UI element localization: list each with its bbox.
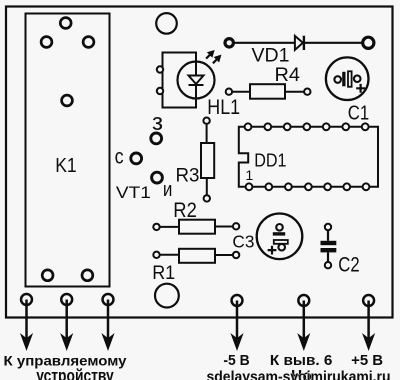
terminal pad L1 xyxy=(21,294,32,305)
capacitor C3 body xyxy=(257,214,303,260)
terminal pad R3 xyxy=(363,295,374,306)
resistor R4 body xyxy=(250,84,285,99)
DD1 pad t4 xyxy=(303,123,310,130)
capacitor C1 body xyxy=(326,57,369,100)
K1 pad 6 xyxy=(82,270,93,281)
C2 plate 2 xyxy=(321,248,337,252)
svg-text:DD1: DD1 xyxy=(254,150,286,171)
R2 pad left xyxy=(153,224,159,230)
K1 pad 4 xyxy=(62,95,73,106)
R1 pad right xyxy=(233,252,239,258)
HL1 LED diode symbol xyxy=(189,62,204,99)
R1 wire left xyxy=(160,254,179,256)
svg-text:и: и xyxy=(163,179,173,201)
arrow 6 xyxy=(363,301,374,350)
DD1 pad t7 xyxy=(362,123,369,130)
VD1 wire left xyxy=(234,42,295,44)
arrow 2 xyxy=(61,300,72,350)
svg-text:К выв. 6: К выв. 6 xyxy=(270,353,333,369)
R2 wire left xyxy=(160,226,179,228)
svg-text:R4: R4 xyxy=(275,64,301,86)
HL1 pad 1 xyxy=(157,66,163,72)
HL1 pad 2 xyxy=(157,88,163,94)
C2 stem top xyxy=(327,231,329,241)
svg-text:VT1: VT1 xyxy=(116,183,151,202)
arrow 1 xyxy=(21,300,32,350)
svg-text:sdelaysam-svoimirukami.ru: sdelaysam-svoimirukami.ru xyxy=(207,369,391,380)
DD1 pad t6 xyxy=(342,123,349,130)
DD1 pad b7 xyxy=(363,183,370,190)
HL1 light arrow 2 xyxy=(213,55,221,63)
VT1 pad s xyxy=(131,153,142,164)
DD1 pad b1 xyxy=(246,183,253,190)
DD1 pad b5 xyxy=(324,183,331,190)
VD1 pad right xyxy=(363,37,374,48)
diode VD1 pad left xyxy=(225,39,233,47)
svg-text:C3: C3 xyxy=(232,232,254,252)
R4 wire left xyxy=(233,91,250,93)
DD1 pad b6 xyxy=(343,183,350,190)
svg-text:R1: R1 xyxy=(152,263,175,284)
mounting hole top xyxy=(156,13,177,34)
svg-text:с: с xyxy=(115,144,124,168)
terminal pad R2 xyxy=(298,295,309,306)
C3 symbol xyxy=(268,224,288,255)
svg-text:R2: R2 xyxy=(173,198,197,222)
relay K1 body xyxy=(26,14,110,287)
resistor R3 body xyxy=(201,143,214,178)
K1 pad 3 xyxy=(83,37,94,48)
C1 symbol xyxy=(334,71,365,92)
arrow 4 xyxy=(232,301,243,350)
VT1 pad i xyxy=(152,172,163,183)
R3 pad bottom xyxy=(204,195,210,201)
DD1 pad t2 xyxy=(264,123,271,130)
terminal pad R1 xyxy=(232,295,243,306)
DD1 pad t3 xyxy=(284,123,291,130)
svg-text:1: 1 xyxy=(245,168,253,184)
VD1 wire right xyxy=(305,42,363,44)
R3 pad top xyxy=(203,118,209,124)
svg-text:HL1: HL1 xyxy=(207,95,240,119)
arrow 3 xyxy=(103,300,114,350)
LED HL1 body xyxy=(163,53,197,108)
svg-text:C2: C2 xyxy=(338,253,359,277)
R3 wire top xyxy=(206,125,208,143)
DD1 pad t5 xyxy=(323,123,330,130)
R4 pad right xyxy=(304,89,310,95)
R3 wire bottom xyxy=(206,178,208,195)
svg-text:+5 В: +5 В xyxy=(351,353,383,369)
terminal pad L2 xyxy=(61,294,72,305)
K1 pad 5 xyxy=(42,270,53,281)
resistor R1 body xyxy=(179,249,215,263)
R4 pad left xyxy=(226,89,232,95)
DD1 pad b2 xyxy=(265,183,272,190)
VT1 pad z xyxy=(151,133,162,144)
terminal pad L3 xyxy=(103,294,114,305)
K1 pad 1 xyxy=(60,18,71,29)
VD1 diode symbol xyxy=(295,36,304,50)
HL1 light arrow 1 xyxy=(206,51,214,59)
resistor R2 body xyxy=(179,220,215,234)
R4 wire right xyxy=(285,91,304,93)
R2 wire right xyxy=(215,226,233,228)
arrow 5 xyxy=(298,301,309,350)
svg-text:-5 В: -5 В xyxy=(223,353,249,369)
R1 pad left xyxy=(153,252,159,258)
mounting hole bottom xyxy=(155,284,179,308)
svg-text:C1: C1 xyxy=(348,101,369,124)
capacitor C2 pad top xyxy=(325,224,331,230)
svg-text:K1: K1 xyxy=(55,154,76,177)
svg-text:R3: R3 xyxy=(176,164,200,186)
DD1 pad b4 xyxy=(305,183,312,190)
C2 plate 1 xyxy=(321,241,337,245)
R1 wire right xyxy=(215,254,233,256)
IC DD1 body xyxy=(239,127,378,187)
R2 pad right xyxy=(233,223,239,229)
K1 pad 2 xyxy=(41,37,52,48)
C2 stem bottom xyxy=(327,252,329,261)
svg-text:устройству: устройству xyxy=(36,366,114,380)
C2 pad bottom xyxy=(325,262,331,268)
PCB outline xyxy=(6,7,393,318)
HL1 LED circle xyxy=(178,62,215,99)
DD1 pad t1 xyxy=(245,123,252,130)
DD1 pad b3 xyxy=(285,183,292,190)
